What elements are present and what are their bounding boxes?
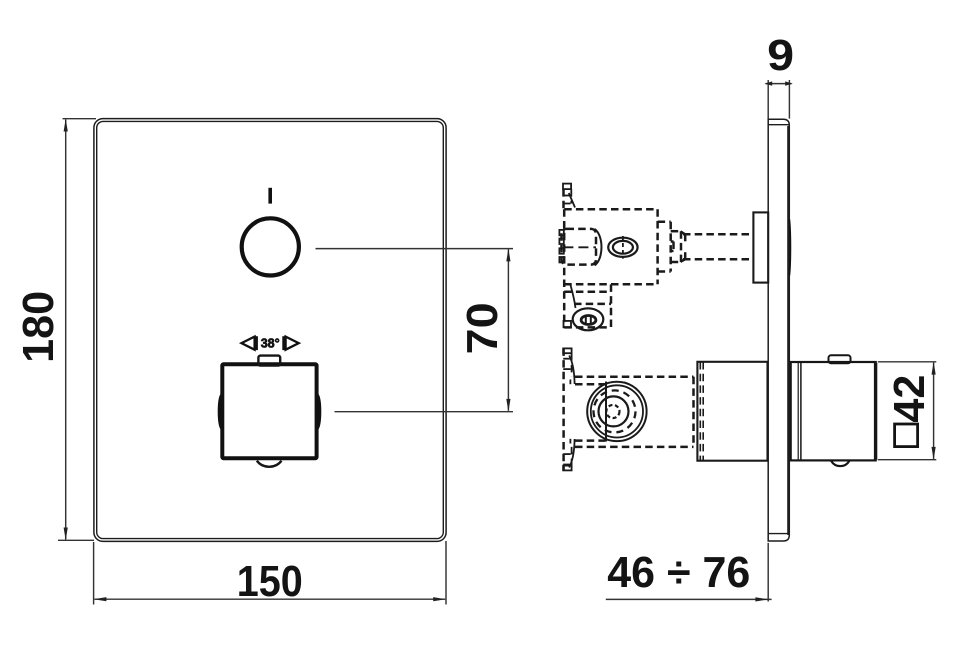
svg-text:42: 42 (885, 375, 934, 423)
svg-text:46 ÷ 76: 46 ÷ 76 (607, 548, 750, 597)
svg-text:38°: 38° (261, 335, 280, 350)
svg-text:150: 150 (237, 557, 303, 606)
svg-text:9: 9 (767, 31, 794, 80)
svg-text:70: 70 (458, 302, 507, 354)
svg-text:180: 180 (14, 291, 63, 363)
